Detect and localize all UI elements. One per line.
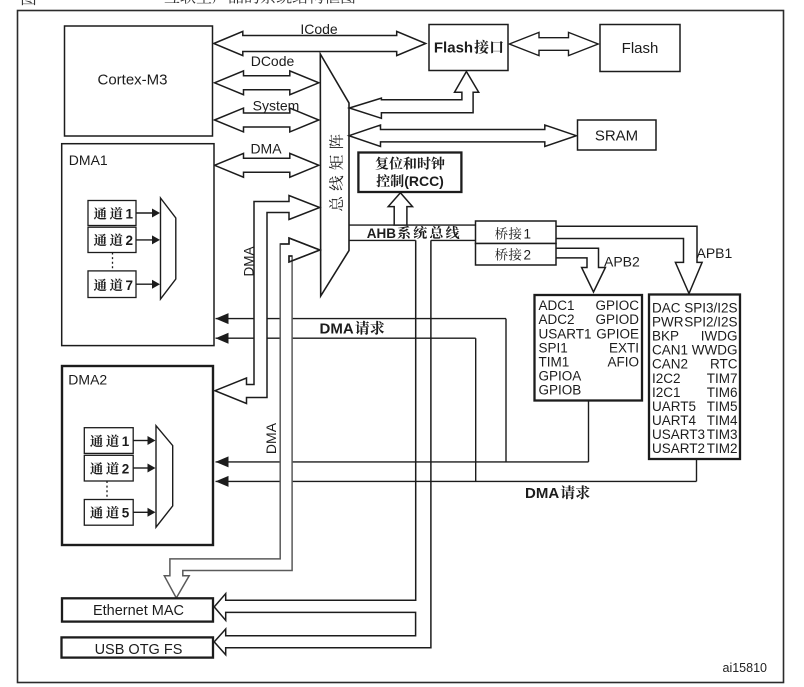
svg-text:DMA: DMA bbox=[250, 141, 282, 157]
APB2 peripherals block bbox=[535, 295, 643, 401]
DMA1 block bbox=[62, 144, 214, 346]
USB OTG FS block bbox=[62, 637, 214, 657]
svg-text:DMA: DMA bbox=[263, 422, 279, 454]
bridge2 block 桥接2 bbox=[476, 244, 557, 266]
bus matrix block 总线矩阵 bbox=[320, 54, 349, 296]
wire DMA-request line 1a (APB2 requests to DMA1) bbox=[216, 318, 507, 320]
svg-text:TIM7: TIM7 bbox=[707, 371, 738, 386]
System bus double arrow bbox=[215, 108, 319, 132]
DMA2 mux trapezoid bbox=[156, 426, 173, 528]
svg-text:ADC1: ADC1 bbox=[539, 298, 575, 313]
svg-text:I2C2: I2C2 bbox=[652, 371, 681, 386]
wire channel2 to mux bbox=[133, 467, 148, 469]
svg-text:7: 7 bbox=[126, 278, 134, 293]
svg-text:Cortex-M3: Cortex-M3 bbox=[97, 72, 167, 89]
svg-text:5: 5 bbox=[122, 506, 130, 521]
arrow AHB bus to RCC bbox=[388, 193, 412, 225]
DMA1 channel 7 box 通道7 bbox=[88, 271, 136, 298]
wire channel2 to mux bbox=[136, 239, 153, 241]
svg-text:I2C1: I2C1 bbox=[652, 385, 681, 400]
svg-text:TIM1: TIM1 bbox=[539, 355, 570, 370]
wire channel5 to mux bbox=[133, 511, 148, 513]
svg-text:SRAM: SRAM bbox=[595, 128, 638, 145]
svg-text:DMA2: DMA2 bbox=[68, 372, 107, 388]
svg-text:TIM2: TIM2 bbox=[707, 441, 738, 456]
svg-text:1: 1 bbox=[126, 207, 134, 222]
svg-text:CAN1: CAN1 bbox=[652, 343, 688, 358]
wire channel1 to mux bbox=[136, 212, 153, 214]
svg-text:WWDG: WWDG bbox=[692, 343, 738, 358]
svg-text:USART1: USART1 bbox=[539, 326, 592, 341]
APB1 hollow bus from bridge1 with down arrowhead bbox=[557, 226, 703, 293]
svg-text:USART3: USART3 bbox=[652, 427, 705, 442]
svg-text:Flash: Flash bbox=[622, 40, 659, 57]
svg-text:USART2: USART2 bbox=[652, 441, 705, 456]
svg-text:DMA: DMA bbox=[242, 247, 257, 277]
RCC block 复位和时钟控制 bbox=[358, 153, 461, 193]
svg-text:GPIOA: GPIOA bbox=[539, 369, 582, 384]
svg-text:CAN2: CAN2 bbox=[652, 357, 688, 372]
bridge1 block 桥接1 bbox=[476, 221, 557, 244]
DCode bus double arrow bbox=[215, 71, 319, 95]
svg-text:TIM5: TIM5 bbox=[707, 399, 738, 414]
svg-text:ADC2: ADC2 bbox=[539, 312, 575, 327]
svg-text:1: 1 bbox=[122, 434, 130, 449]
svg-text:DMA: DMA bbox=[525, 485, 559, 502]
Flash interface double arrow to Flash memory bbox=[509, 32, 598, 55]
svg-text:IWDG: IWDG bbox=[701, 329, 738, 344]
wire channel1 to mux bbox=[133, 440, 148, 442]
svg-text:RTC: RTC bbox=[710, 357, 738, 372]
ICode bus double arrow bbox=[214, 31, 426, 55]
AHB system bus double line bbox=[349, 224, 394, 226]
svg-text:DCode: DCode bbox=[251, 53, 295, 69]
svg-text:GPIOD: GPIOD bbox=[595, 312, 639, 327]
DMA2 channel 2 box 通道2 bbox=[84, 455, 133, 481]
svg-text:EXTI: EXTI bbox=[609, 340, 639, 355]
svg-text:USB OTG FS: USB OTG FS bbox=[95, 642, 183, 658]
svg-text:1: 1 bbox=[524, 227, 532, 242]
dashed wire between channel 2 and channel 5 bbox=[106, 481, 108, 500]
DMA1 channel 1 box 通道1 bbox=[88, 201, 136, 226]
svg-text:2: 2 bbox=[524, 248, 532, 263]
bent double arrow matrix to Flash interface bbox=[349, 72, 478, 119]
svg-text:Flash: Flash bbox=[434, 40, 473, 57]
Cortex-M3 block bbox=[65, 26, 213, 136]
svg-text:TIM6: TIM6 bbox=[707, 385, 738, 400]
svg-text:GPIOE: GPIOE bbox=[596, 326, 639, 341]
svg-text:APB2: APB2 bbox=[604, 254, 640, 270]
svg-text:SPI1: SPI1 bbox=[539, 340, 568, 355]
svg-text:2: 2 bbox=[122, 462, 130, 477]
svg-text:UART5: UART5 bbox=[652, 399, 696, 414]
svg-text:ai15810: ai15810 bbox=[723, 661, 768, 675]
svg-text:GPIOC: GPIOC bbox=[595, 298, 639, 313]
wire DMA-request line 1b (APB1 requests to DMA1) bbox=[216, 337, 476, 339]
DMA2 channel 1 box 通道1 bbox=[84, 428, 133, 454]
wire channel7 to mux bbox=[136, 283, 153, 285]
wire DMA-request line 2a from APB2 peripherals to DMA2 bbox=[216, 461, 589, 463]
svg-text:TIM3: TIM3 bbox=[707, 427, 738, 442]
DMA2 channel 5 box 通道5 bbox=[84, 500, 133, 526]
svg-text:DMA1: DMA1 bbox=[69, 152, 108, 168]
Flash interface block Flash接口 bbox=[429, 25, 508, 71]
dashed wire between channel 2 and channel 7 bbox=[112, 253, 114, 272]
svg-text:Ethernet MAC: Ethernet MAC bbox=[93, 603, 184, 619]
wire DMA-request line 2b from APB1 peripherals to DMA2 bbox=[216, 480, 697, 482]
Flash memory block bbox=[600, 25, 680, 72]
Ethernet MAC block bbox=[62, 598, 213, 621]
DMA bus double arrow DMA1 to matrix bbox=[215, 153, 319, 177]
bent double arrow DMA2 to matrix bbox=[215, 196, 320, 404]
DMA2 block bbox=[62, 366, 213, 545]
svg-text:SPI2/I2S: SPI2/I2S bbox=[684, 315, 737, 330]
SRAM block bbox=[578, 120, 657, 150]
svg-text:2: 2 bbox=[126, 233, 134, 248]
svg-text:PWR: PWR bbox=[652, 315, 684, 330]
svg-text:GPIOB: GPIOB bbox=[539, 383, 582, 398]
svg-text:(RCC): (RCC) bbox=[404, 173, 444, 189]
AHB bus drop to Ethernet MAC and USB OTG FS with hollow arrowheads bbox=[214, 240, 431, 654]
svg-text:DAC: DAC bbox=[652, 301, 681, 316]
svg-text:System: System bbox=[253, 98, 300, 114]
APB2 hollow bus from bridge2 with down arrowhead bbox=[557, 248, 606, 292]
svg-text:AHB: AHB bbox=[367, 226, 396, 241]
DMA1 channel 2 box 通道2 bbox=[88, 227, 136, 252]
svg-text:APB1: APB1 bbox=[697, 245, 733, 261]
bent double arrow Ethernet MAC to matrix (gray) bbox=[164, 238, 320, 598]
svg-text:BKP: BKP bbox=[652, 329, 679, 344]
top caption fragment (clipped figure title) bbox=[22, 0, 36, 5]
svg-text:DMA: DMA bbox=[320, 321, 354, 338]
APB1 peripherals block bbox=[649, 295, 740, 460]
double arrow matrix to SRAM bbox=[349, 125, 576, 146]
svg-text:SPI3/I2S: SPI3/I2S bbox=[684, 301, 737, 316]
svg-text:AFIO: AFIO bbox=[607, 355, 639, 370]
svg-text:ICode: ICode bbox=[300, 21, 338, 37]
DMA1 mux trapezoid bbox=[161, 198, 176, 299]
svg-text:UART4: UART4 bbox=[652, 413, 697, 428]
svg-text:TIM4: TIM4 bbox=[707, 413, 738, 428]
